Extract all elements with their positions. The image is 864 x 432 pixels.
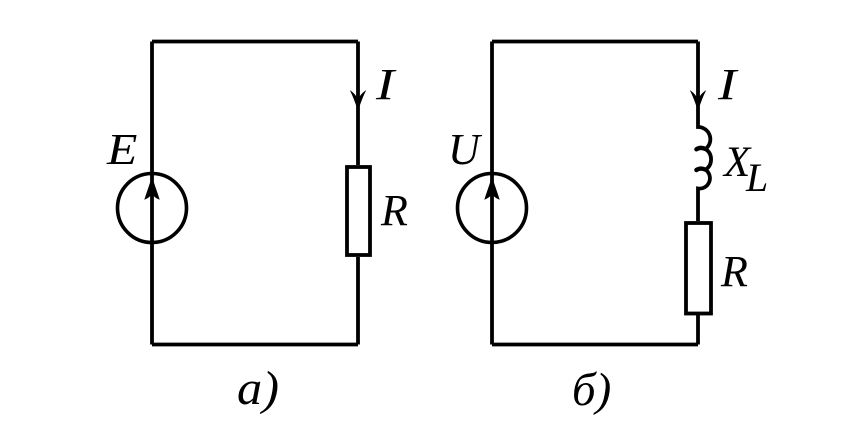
- svg-text:U: U: [448, 125, 483, 174]
- svg-text:E: E: [106, 126, 137, 175]
- svg-text:a): a): [237, 361, 279, 415]
- svg-text:R: R: [380, 186, 408, 235]
- svg-text:L: L: [745, 155, 768, 200]
- svg-text:I: I: [375, 60, 397, 109]
- svg-text:I: I: [717, 60, 739, 109]
- svg-text:R: R: [720, 247, 748, 296]
- svg-text:б): б): [572, 364, 611, 416]
